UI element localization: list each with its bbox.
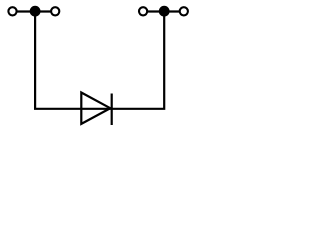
terminal circle top-left inner [51,7,59,15]
junction dot right [159,6,170,17]
terminal circle top-right outer [180,7,188,15]
diode D1 triangle (anode) [81,93,110,124]
diode D1 cathode bar [111,94,113,126]
terminal circle top-right inner [139,7,147,15]
wire U-run left-bottom-right [35,11,164,109]
wire top-right [143,10,184,12]
junction dot left [30,6,41,17]
terminal circle top-left outer [8,7,16,15]
wire top-left [13,10,56,12]
